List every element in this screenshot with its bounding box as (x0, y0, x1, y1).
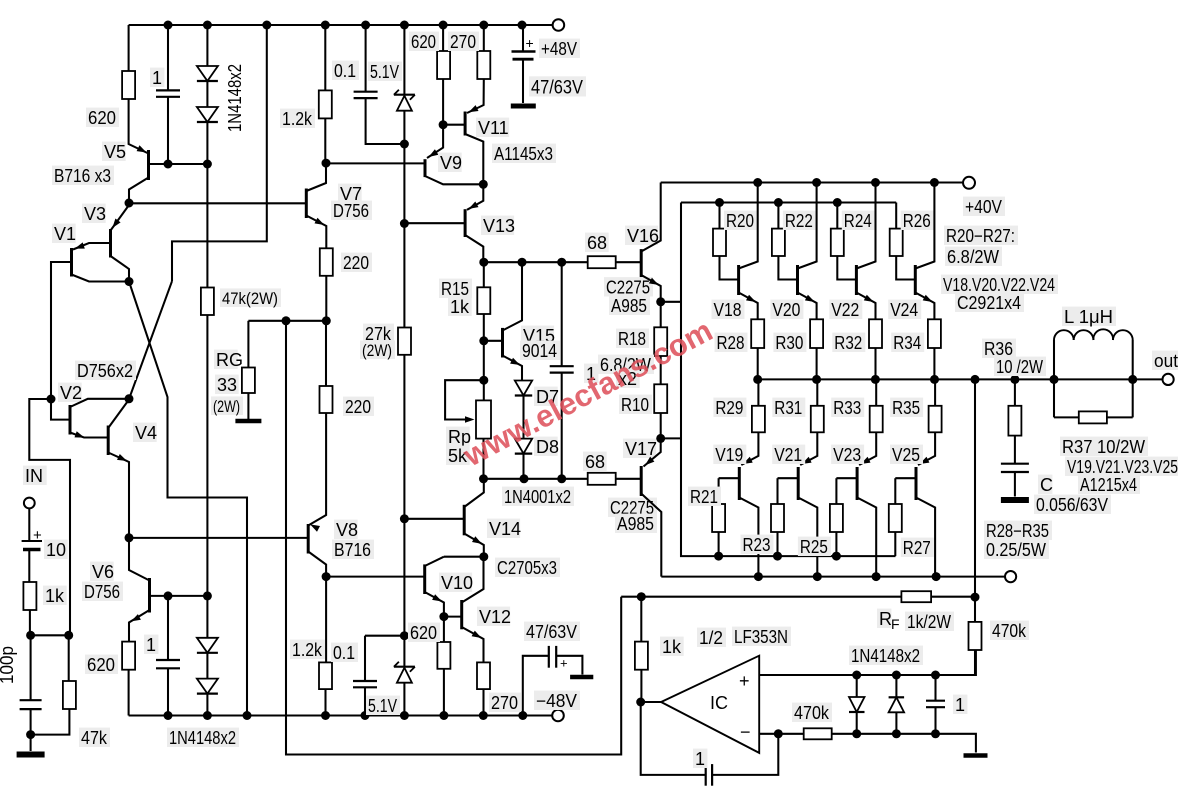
wire V17 collector (641, 494, 661, 577)
wire V11 base (443, 124, 465, 126)
svg-text:V19.V21.V23.V25: V19.V21.V23.V25 (1067, 457, 1178, 477)
wire V12 collector (462, 557, 484, 603)
wire V22 collector (856, 183, 875, 269)
ground - line (964, 753, 988, 758)
label V15 (521, 326, 555, 346)
wire V16e tap (661, 301, 681, 303)
transistor V10 bar (423, 564, 426, 594)
node V14 emitter (479, 552, 488, 561)
label V13 (481, 216, 515, 236)
label 1 (top-left cap) (150, 68, 164, 88)
wire 47k body top (68, 635, 70, 681)
wire cap-48 path (523, 656, 549, 716)
svg-text:V17: V17 (625, 439, 657, 459)
wire 1.2k to node (324, 118, 326, 163)
node V11/V9 collector (479, 180, 488, 189)
label V9 (438, 153, 462, 173)
capacitor 1 (top-left) (156, 90, 180, 96)
wire D8 bottom (522, 454, 524, 479)
node opamp out (636, 698, 645, 707)
label 1N4148x2 (opamp) (849, 646, 923, 666)
resistor R21 (712, 504, 725, 532)
svg-text:47k: 47k (81, 728, 108, 748)
transistor V8 bar (307, 524, 310, 554)
label R36 (982, 339, 1016, 359)
node base line R25 (832, 552, 841, 561)
wire 0.1a bottom (366, 98, 405, 144)
resistor R31 (811, 406, 824, 433)
wire V3 collector (111, 256, 130, 282)
label -48V (534, 691, 580, 711)
transistor V24 bar (914, 265, 917, 295)
wire V16 collector (641, 183, 661, 252)
label V10 (439, 573, 473, 593)
wire V14 emitter (464, 534, 484, 557)
svg-text:V22: V22 (831, 300, 859, 320)
wire C to ground (1014, 472, 1016, 497)
wire R15-Rp link (483, 341, 485, 401)
wire V6 base (150, 595, 208, 597)
wire 470k-b top (974, 597, 976, 622)
wire R28 bottom (757, 348, 759, 379)
svg-text:V3: V3 (84, 204, 106, 224)
node bottom rail x=522.8 (518, 711, 527, 720)
potentiometer Rp 5k (476, 400, 491, 438)
wire V2 collector (70, 399, 129, 407)
label D756x2 (75, 361, 136, 381)
wire RG drop (247, 321, 249, 368)
transistor V11 bar (464, 112, 467, 136)
label 1.2k (top) (280, 109, 315, 129)
wire cross diagonal A (129, 282, 247, 716)
svg-text:+: + (739, 671, 750, 691)
node output rail x=875.4 (871, 375, 880, 384)
wire 68 to V16 (616, 261, 642, 263)
wire 620-R1 top (128, 25, 130, 71)
wire 1k opamp top (640, 597, 642, 642)
wire R30 bottom (816, 348, 818, 379)
wire R18-R10 (660, 356, 662, 384)
svg-text:270: 270 (491, 693, 518, 713)
label R34 (891, 333, 924, 353)
ground +48V cap (511, 104, 536, 109)
resistor R25 (830, 504, 843, 532)
node +40V rail V18 (753, 178, 762, 187)
svg-text:L 1μH: L 1μH (1064, 307, 1113, 327)
wire V4 emitter (108, 453, 129, 538)
svg-text:−48V: −48V (536, 691, 577, 711)
label 68 (lower) (583, 452, 607, 472)
wire between lower diodes (206, 596, 208, 679)
label D8 (534, 437, 559, 457)
label 6.8/2W bank (945, 247, 1002, 267)
label 1 (opamp cap) (953, 695, 967, 715)
resistor R22 (772, 229, 785, 256)
svg-text:V8: V8 (336, 520, 358, 540)
node + line x=896.4 (892, 671, 901, 680)
label V18.V20.V22.V24 (941, 275, 1058, 295)
wire between diodes (206, 81, 208, 107)
capacitor 1 (fb) (706, 764, 712, 786)
label 5k (446, 446, 470, 466)
terminal -48V (552, 710, 564, 722)
svg-text:V14: V14 (489, 519, 521, 539)
svg-text:33: 33 (217, 375, 237, 395)
label + (opamp) (739, 671, 750, 691)
svg-text:V2: V2 (60, 383, 82, 403)
wire V14 collector (464, 479, 484, 507)
label 1k (opamp) (660, 637, 684, 657)
svg-text:+48V: +48V (541, 39, 577, 59)
wire base feed line (681, 201, 896, 203)
label V2 (58, 383, 82, 403)
label 470k (fb) (990, 621, 1029, 641)
svg-text:1.2k: 1.2k (282, 109, 313, 129)
node V5 base / cap1 (164, 160, 173, 169)
node zener/0.1 junction (400, 140, 409, 149)
svg-text:1: 1 (146, 635, 156, 655)
label 0.056/63V (1034, 495, 1111, 515)
wire V2 emitter (70, 431, 108, 437)
label V23 (831, 445, 864, 465)
label R26 (901, 211, 934, 231)
wire 220 to RG line (325, 276, 327, 321)
node gnd junction (26, 730, 35, 739)
label 270 (V12) (489, 693, 521, 713)
wire V9 emitter (427, 125, 443, 158)
svg-text:+40V: +40V (965, 197, 1002, 217)
wire V1 collector (72, 275, 130, 282)
capacitor 47/63V (top) (512, 52, 536, 60)
label +48V (539, 39, 580, 59)
svg-text:IC: IC (710, 693, 728, 713)
svg-text:R22: R22 (785, 211, 813, 231)
diode 1N4148 D-c (197, 638, 218, 653)
resistor 220 (V8) (320, 386, 333, 413)
wire R15 bottom (483, 314, 485, 341)
svg-text:R30: R30 (775, 333, 803, 353)
diode 1N4148 D-b (197, 107, 218, 122)
capacitor 100p (20, 700, 42, 709)
node fb 1k (637, 592, 646, 601)
svg-text:R23: R23 (743, 535, 771, 555)
node base feed R22 (774, 198, 783, 207)
transistor V5 bar (147, 150, 150, 180)
svg-text:1N4001x2: 1N4001x2 (504, 487, 571, 507)
label 100p (0, 646, 17, 684)
node output rail x=1054 (1050, 375, 1059, 384)
node V2 base junction (47, 395, 56, 404)
wire V22 emitter (856, 293, 875, 320)
label IC (710, 693, 728, 713)
wire R25 top (835, 478, 837, 504)
node +40V rail V22 (871, 178, 880, 187)
label B716 (V8) (332, 540, 374, 560)
terminal IN (24, 498, 35, 509)
wire - line right (832, 734, 976, 753)
node mid rail left (479, 258, 488, 267)
node collector bus x=936.1 (932, 572, 941, 581)
label 9014 (520, 341, 560, 361)
node top rail x=404.4 (400, 21, 409, 30)
svg-text:R10: R10 (621, 395, 649, 415)
svg-text:47/63V: 47/63V (531, 78, 583, 99)
ground input (17, 752, 45, 758)
wire V20 collector (798, 183, 817, 269)
label B716 x3 (52, 166, 114, 186)
transistor V23 bar (856, 467, 859, 500)
resistor 1k (input) (23, 582, 36, 610)
svg-text:V11: V11 (478, 118, 509, 138)
label C2275 (V17) (608, 498, 657, 518)
wire 27k top (403, 224, 405, 328)
wire 27k to V14 base (403, 355, 405, 519)
wire V13 emitter (467, 184, 483, 210)
node bias left (479, 474, 488, 483)
node base line R23 (773, 552, 782, 561)
node 0.1b junction (400, 631, 409, 640)
label V25 (890, 445, 923, 465)
svg-text:RG: RG (216, 350, 243, 370)
wire L loop right (1132, 340, 1134, 417)
wire D-e bottom (856, 712, 858, 734)
label 47k (input) (79, 728, 110, 748)
diode 1N4148 D-a (197, 66, 218, 81)
label + (cap-48) (560, 656, 568, 671)
svg-text:R24: R24 (844, 211, 872, 231)
label V11 (476, 118, 509, 138)
wire 0.1b link (365, 635, 404, 637)
wire V21 emitter (800, 432, 817, 465)
wire V13 base (404, 222, 465, 224)
svg-text:R28: R28 (717, 333, 745, 353)
wire cap48 bottom (522, 59, 524, 103)
label R22 (783, 211, 816, 231)
label V24 (888, 300, 921, 320)
svg-text:220: 220 (343, 253, 369, 273)
wire R22 top (777, 203, 779, 229)
resistor 1k (opamp) (635, 642, 648, 670)
resistor 620 (V12) (437, 642, 450, 669)
svg-text:620: 620 (87, 655, 115, 675)
label V8 (334, 520, 358, 540)
wire V1 base (51, 262, 72, 399)
node +40V rail V20 (812, 178, 821, 187)
wire V11 collector (465, 134, 483, 184)
label R27 (901, 538, 934, 558)
node top rail x=443.1 (439, 21, 448, 30)
terminal out (1163, 374, 1174, 385)
wire cap10 to 1k (28, 550, 30, 583)
resistor R15 1k (477, 287, 490, 314)
resistor R27 (889, 504, 902, 532)
wire R10 bottom (660, 413, 662, 438)
node top rail x=168 (164, 21, 173, 30)
wire V14 base (404, 518, 464, 520)
svg-text:IN: IN (25, 466, 43, 486)
wire bias vertical x681 (681, 203, 896, 557)
wire V23 base (836, 477, 857, 479)
svg-text:B716: B716 (334, 540, 371, 560)
svg-text:6.8/2W: 6.8/2W (947, 247, 999, 267)
wire 100p top (30, 635, 32, 700)
label 220 (V8) (343, 397, 374, 417)
svg-text:R36: R36 (984, 339, 1013, 359)
wire V6 collector (129, 538, 150, 581)
wire zener-a top (403, 25, 405, 95)
resistor R34 (928, 319, 941, 348)
wire 1.2k-b to rail (324, 689, 326, 715)
capacitor C 0.056 (1001, 464, 1029, 472)
label R10 (619, 395, 652, 415)
node mid rail cap2 (557, 258, 566, 267)
svg-text:(2W): (2W) (213, 397, 240, 416)
wire 0.1b down (364, 687, 366, 715)
resistor 68 (lower) (588, 473, 616, 485)
label C2705x3 (495, 558, 560, 578)
wire +40V rail (661, 181, 963, 183)
node + line x=935.5 (931, 671, 940, 680)
wire V10 collector (425, 557, 444, 566)
wire RG to ground (247, 393, 249, 419)
wire bias line (484, 478, 588, 480)
wire 47k bottom (31, 709, 70, 735)
wire diode chain bottom (206, 122, 208, 164)
label 47/63V (bottom) (524, 622, 580, 642)
label R18 (616, 329, 649, 349)
label V19.V21.V23.V25 (1065, 457, 1178, 477)
wire 0.1a top (365, 25, 367, 92)
node mid rail cap (518, 258, 527, 267)
wire 47k(2W) column (206, 164, 208, 288)
label 620 (V6) (85, 655, 118, 675)
node V16 emitter (656, 297, 665, 306)
node V4 emitter / V8 base (125, 533, 134, 542)
node input RC (26, 631, 35, 640)
wire V21 base (778, 477, 799, 479)
label R23 (741, 535, 774, 555)
wire R26 top (895, 203, 897, 229)
resistor R33 (870, 406, 883, 433)
wire V15 collector (503, 262, 523, 330)
wire R27 bottom (894, 532, 896, 556)
svg-text:220: 220 (345, 397, 371, 417)
svg-text:C2921x4: C2921x4 (957, 293, 1021, 313)
wire V13 collector (465, 235, 483, 262)
resistor 47k(2W) (201, 288, 214, 316)
svg-text:R29: R29 (715, 398, 743, 418)
transistor V6 bar (148, 578, 151, 613)
svg-text:C2705x3: C2705x3 (497, 558, 557, 578)
label V7 (338, 184, 362, 204)
wire cap1d bottom (934, 707, 936, 734)
wire 47k to V6 base (206, 315, 208, 596)
transistor V21 bar (797, 467, 800, 500)
node V5 base / diodes (203, 160, 212, 169)
wire V12 emitter (462, 627, 484, 662)
svg-text:V5: V5 (104, 142, 126, 162)
label 47k(2W) (220, 288, 281, 308)
wire R18 top (660, 302, 662, 328)
resistor R28 (751, 319, 764, 348)
svg-text:R26: R26 (903, 211, 931, 231)
label + (cap10) (33, 527, 42, 544)
node V3-emitter junction (125, 199, 134, 208)
wire V19 base (719, 477, 740, 479)
diode D7 (515, 381, 532, 396)
wire cap1m top (561, 262, 563, 366)
diode D8 (515, 439, 532, 454)
svg-text:V13: V13 (483, 216, 515, 236)
svg-text:1k: 1k (662, 637, 682, 657)
wire V24 emitter (915, 293, 934, 320)
resistor 470k (inv) (804, 728, 832, 739)
capacitor 10 electrolytic (22, 541, 42, 550)
wire R22 to base (778, 256, 797, 280)
watermark (457, 313, 718, 474)
label V12 (477, 607, 511, 627)
wire cap1 top (167, 25, 169, 90)
label 1.2k (bottom) (290, 640, 325, 660)
resistor 620 (V9) (437, 51, 450, 79)
node - line x=896.4 (892, 729, 901, 738)
transistor V15 bar (501, 328, 504, 358)
transistor V13 bar (464, 209, 467, 237)
wire cap1m bottom (561, 373, 563, 479)
opamp IC triangle (661, 656, 759, 753)
wire R29 top (757, 379, 759, 405)
wire D-f bottom (895, 712, 897, 734)
wire R37 left (1054, 416, 1079, 418)
resistor R29 (752, 406, 765, 433)
wire V23 collector (857, 498, 876, 577)
wire R20 to base (720, 256, 739, 280)
transistor V16 bar (640, 249, 643, 277)
label A985 (V17) (615, 514, 657, 534)
resistor R24 (831, 229, 844, 256)
label 620 (top-left) (86, 108, 119, 128)
svg-text:1N4148x2: 1N4148x2 (851, 646, 920, 666)
node bottom rail x=443.9 (439, 711, 448, 720)
wire 620c to rail (443, 669, 445, 716)
wire V15 emitter (503, 356, 523, 381)
wire V15 base (484, 340, 503, 342)
capacitor 1 (opamp) (926, 701, 945, 708)
svg-text:V20: V20 (772, 300, 800, 320)
node output rail x=816.6 (812, 375, 821, 384)
svg-text:10 /2W: 10 /2W (996, 357, 1043, 377)
resistor R30 (810, 319, 823, 348)
svg-text:68: 68 (585, 452, 605, 472)
resistor 470k (fb) (969, 622, 982, 650)
svg-text:0.056/63V: 0.056/63V (1036, 495, 1108, 515)
svg-text:D756: D756 (84, 582, 120, 602)
label RF (877, 609, 900, 632)
wire R15 top (483, 262, 485, 287)
label 27k (363, 324, 394, 344)
label A985 (V16) (609, 296, 650, 316)
transistor V14 bar (463, 505, 466, 536)
node base line R21 (714, 552, 723, 561)
wire fb cap right (712, 734, 778, 775)
node - line x=935.5 (931, 729, 940, 738)
label 620 (V9) (409, 32, 439, 52)
svg-text:1N4148x2: 1N4148x2 (169, 728, 236, 748)
wire 0.1b up (364, 636, 366, 681)
svg-text:470k: 470k (794, 703, 830, 723)
wire V8 collector (308, 552, 326, 577)
node top rail x=483.8 (479, 21, 488, 30)
